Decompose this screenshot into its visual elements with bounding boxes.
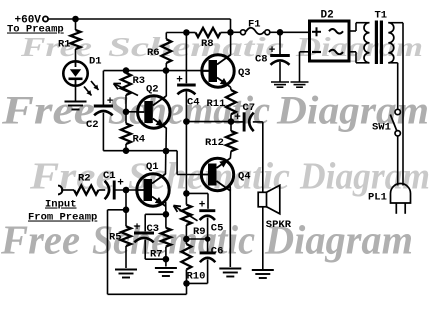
wire R12 to Q4 emitter: [229, 151, 232, 159]
wire C4 bottom: [185, 92, 187, 122]
node R10 bottom: [183, 280, 190, 287]
node R8 left: [183, 29, 190, 36]
R9 arrow: [174, 206, 198, 221]
ground below R5: [115, 269, 137, 271]
svg-text:Q4: Q4: [238, 171, 251, 183]
svg-text:C8: C8: [255, 54, 268, 66]
wire Q4 collector to ground: [229, 185, 231, 191]
wire top bus y=70.6: [104, 70, 210, 72]
wire staircase to Q4 base: [176, 151, 178, 175]
node input-Q1base-R5: [123, 187, 130, 194]
ground below D2 minus: [291, 81, 309, 83]
svg-text:R5: R5: [109, 232, 122, 244]
svg-text:C1: C1: [103, 170, 116, 182]
wire Q2 collector: [165, 71, 167, 96]
svg-text:Input: Input: [45, 199, 77, 211]
wire R10node to bottom rail: [186, 283, 188, 294]
wire C7 to speaker: [262, 122, 264, 270]
wire SW1 to plug: [397, 136, 399, 186]
resistor R12: [230, 122, 232, 131]
svg-text:Diagram: Diagram: [276, 88, 429, 133]
ground below R7: [155, 267, 177, 269]
wire box left lower: [144, 240, 146, 259]
wire C1 to Q1 base: [114, 189, 138, 191]
wire left rail vertical: [107, 210, 109, 294]
node C5C6 mid: [205, 236, 211, 242]
T1 primary coil: [364, 23, 370, 63]
wire Q3 collector: [230, 32, 232, 55]
wire C2 bottom stem: [102, 113, 104, 151]
svg-text:R10: R10: [187, 270, 206, 282]
ground below D1: [75, 86, 77, 102]
wire C2 top stem: [102, 71, 104, 105]
ground below C8: [271, 81, 289, 83]
svg-text:SPKR: SPKR: [266, 219, 292, 231]
wire Q2 base: [126, 111, 138, 113]
wire +60V rail: [48, 18, 230, 20]
LED D1 arrows: [84, 87, 92, 96]
T1 secondary coil: [388, 23, 394, 63]
resistor R6: [165, 63, 167, 71]
resistor R2: [74, 185, 99, 194]
trimmer R9: [181, 205, 191, 225]
svg-text:PL1: PL1: [368, 192, 387, 204]
resistor R4: [125, 112, 127, 124]
wire box top edge: [145, 213, 166, 215]
svg-text:Q2: Q2: [146, 84, 159, 96]
LED D1: [63, 61, 87, 85]
capacitor C6: [200, 251, 216, 254]
wire C4 node down to R9: [185, 122, 187, 205]
svg-text:To Preamp: To Preamp: [7, 24, 64, 36]
wire R9bottom to C5C6 stem: [186, 238, 207, 240]
wire R2-C1: [99, 189, 106, 191]
wire Q2 emitter down: [165, 128, 167, 151]
+60V terminal: [43, 16, 48, 21]
svg-text:C5: C5: [211, 223, 224, 235]
svg-text:D1: D1: [89, 56, 102, 68]
ground below Q4: [219, 268, 241, 270]
transistor Q1: [137, 174, 169, 206]
svg-text:SW1: SW1: [372, 122, 391, 134]
resistor R7: [165, 214, 167, 228]
svg-text:R9: R9: [193, 226, 206, 238]
wire bottom rail: [108, 293, 187, 295]
wire C6 bottom: [207, 260, 209, 284]
wire R8node to C4 vertical: [185, 33, 187, 84]
transistor Q3: [202, 55, 234, 87]
svg-text:R4: R4: [133, 134, 146, 146]
svg-text:Q1: Q1: [146, 161, 159, 173]
node rail-R1: [72, 16, 79, 23]
node bus-R6-Q2collector: [163, 67, 170, 74]
input jack terminal: [58, 186, 62, 195]
resistor R10: [185, 239, 187, 244]
svg-text:R12: R12: [205, 137, 224, 149]
wire Q1 emitter down: [165, 202, 167, 214]
wire Q3 emitter to R11: [230, 87, 232, 90]
svg-text:C2: C2: [86, 119, 99, 131]
T1 core: [375, 21, 378, 65]
svg-text:R3: R3: [133, 75, 146, 87]
resistor R5: [125, 210, 127, 227]
wire input to R2: [61, 189, 74, 191]
node R11-R12-C7: [228, 118, 235, 125]
svg-text:R1: R1: [58, 39, 71, 51]
svg-text:D2: D2: [321, 9, 334, 21]
svg-text:Q3: Q3: [238, 67, 251, 79]
node C4-wire: [183, 118, 190, 125]
wire C4node-R11node: [186, 121, 231, 123]
wire down to R5 node: [125, 190, 127, 210]
wire Q1 collector up: [165, 151, 167, 174]
node R3-R4-Q2base: [123, 109, 130, 116]
svg-text:T1: T1: [375, 9, 388, 21]
R3 arrow: [114, 84, 139, 96]
speaker SPKR: [267, 185, 280, 214]
resistor R8: [196, 28, 221, 37]
svg-text:R11: R11: [207, 98, 226, 110]
svg-text:Free: Free: [1, 88, 95, 133]
svg-text:R7: R7: [150, 249, 163, 261]
svg-text:C4: C4: [187, 97, 200, 109]
wire box left upper: [144, 214, 146, 231]
node Q2emitter-Q1collector: [163, 148, 170, 155]
svg-text:C6: C6: [211, 246, 224, 258]
capacitor C1: [113, 181, 116, 200]
bridge rectifier D2: [310, 21, 350, 61]
node F1-C8-D2: [277, 29, 284, 36]
resistor R1: [75, 19, 77, 30]
svg-text:R2: R2: [78, 173, 91, 185]
wire C5-C6 stem: [207, 218, 209, 253]
svg-text:R6: R6: [147, 47, 160, 59]
node box bottom: [163, 256, 170, 263]
transistor Q2: [138, 96, 170, 128]
node R5 top: [123, 207, 130, 214]
T1 primary connection wires: [349, 30, 356, 32]
T1 secondary connection wires: [388, 22, 403, 24]
svg-text:From Preamp: From Preamp: [28, 212, 97, 224]
node R4 bottom: [123, 147, 130, 154]
svg-text:C3: C3: [147, 223, 160, 235]
trimmer R3: [125, 71, 127, 73]
wire emitter bus y=150.7: [103, 150, 177, 152]
transistor Q4: [201, 158, 233, 190]
svg-text:+: +: [117, 178, 124, 190]
node bus-R3: [123, 67, 130, 74]
capacitor C8: [279, 32, 281, 54]
node R9 top branch: [183, 190, 190, 197]
svg-text:R8: R8: [201, 38, 214, 50]
ground below speaker: [252, 269, 274, 271]
resistor R11: [226, 90, 236, 114]
node rail-R8-F1-Q3: [227, 29, 234, 36]
wire left-rail horiz: [108, 209, 127, 211]
node R9-R10: [183, 236, 190, 243]
node box top: [163, 211, 170, 218]
wire branch to C5: [186, 192, 208, 194]
svg-text:C7: C7: [243, 102, 256, 114]
wire box bottom edge: [145, 258, 166, 260]
switch SW1: [395, 109, 400, 114]
wire D2 minus to ground: [300, 51, 310, 53]
